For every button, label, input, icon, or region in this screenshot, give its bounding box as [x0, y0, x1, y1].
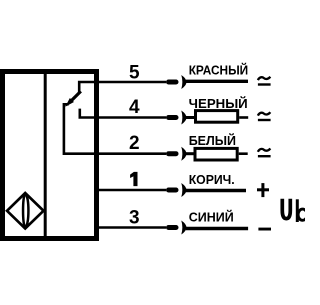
wire 4 segment after load — [239, 116, 248, 119]
sensor body box — [3, 72, 97, 239]
connector socket wire 5 — [181, 75, 186, 89]
minus symbol — [258, 228, 271, 231]
supply voltage label Ub — [282, 199, 307, 222]
sensor lens left curve — [23, 194, 25, 228]
connector pin wire 2 — [166, 151, 179, 156]
approx symbol wire 2 — [258, 148, 270, 151]
wire 1 label underline — [186, 189, 246, 192]
sensor element (diamond) — [7, 193, 44, 229]
wire 3 — [97, 226, 166, 229]
connector pin wire 3 — [166, 225, 179, 230]
switch pole bracket + wire 2 — [64, 104, 166, 153]
internal divider — [44, 74, 47, 236]
connector socket wire 4 — [181, 111, 186, 125]
switch lever arrowhead — [65, 98, 74, 107]
approx symbol wire 5 — [258, 77, 270, 80]
connector pin wire 4 — [166, 115, 179, 120]
svg-text:БЕЛЫЙ: БЕЛЫЙ — [189, 133, 236, 148]
sensor lens right curve — [26, 194, 29, 228]
wire 2 segment arc to load — [186, 152, 196, 155]
wire 2 segment after load — [239, 152, 248, 155]
wire 1 — [97, 189, 166, 192]
svg-text:КРАСНЫЙ: КРАСНЫЙ — [189, 63, 249, 78]
wire 5 label underline — [186, 80, 248, 83]
svg-text:СИНИЙ: СИНИЙ — [189, 210, 234, 225]
svg-text:4: 4 — [129, 97, 140, 118]
connector socket wire 2 — [181, 147, 186, 161]
pin number 1 — [130, 172, 137, 186]
connector pin wire 1 — [166, 188, 179, 193]
svg-text:5: 5 — [129, 63, 140, 84]
connector pin wire 5 — [166, 80, 179, 85]
wire 3 label underline — [186, 227, 248, 230]
wire 4 with lower contact stub — [80, 109, 166, 118]
switch lever — [70, 91, 81, 102]
svg-text:ЧЕРНЫЙ: ЧЕРНЫЙ — [189, 96, 248, 111]
connector socket wire 3 — [181, 221, 186, 235]
load resistor wire 2 — [195, 148, 237, 160]
plus symbol — [257, 188, 269, 191]
svg-text:КОРИЧ.: КОРИЧ. — [189, 173, 235, 187]
wire 4 segment arc to load — [186, 116, 196, 119]
load resistor wire 4 — [196, 111, 238, 123]
wire 5 with upper contact stub — [79, 82, 166, 94]
approx symbol wire 4 — [258, 112, 270, 115]
connector socket wire 1 — [181, 183, 186, 197]
svg-text:2: 2 — [129, 133, 140, 154]
svg-text:3: 3 — [129, 207, 140, 228]
